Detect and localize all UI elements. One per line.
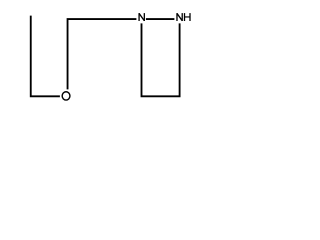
wire: ring left vertical, ring bottom bond, ring right vertical xyxy=(142,23,180,96)
wire: O-CH2 bond (vertical) plus CH2-N bond (top horizontal) xyxy=(68,19,137,89)
node O (ether oxygen label) xyxy=(62,92,70,100)
node NH (ring N-H label) xyxy=(177,13,190,21)
node N (ring nitrogen label) xyxy=(139,13,144,21)
wire: N-NH bond (horizontal) xyxy=(146,18,175,20)
wire: ethyl bond CH3-CH2 (left vertical) plus CH2-O bond (bottom horizontal) xyxy=(31,16,60,97)
